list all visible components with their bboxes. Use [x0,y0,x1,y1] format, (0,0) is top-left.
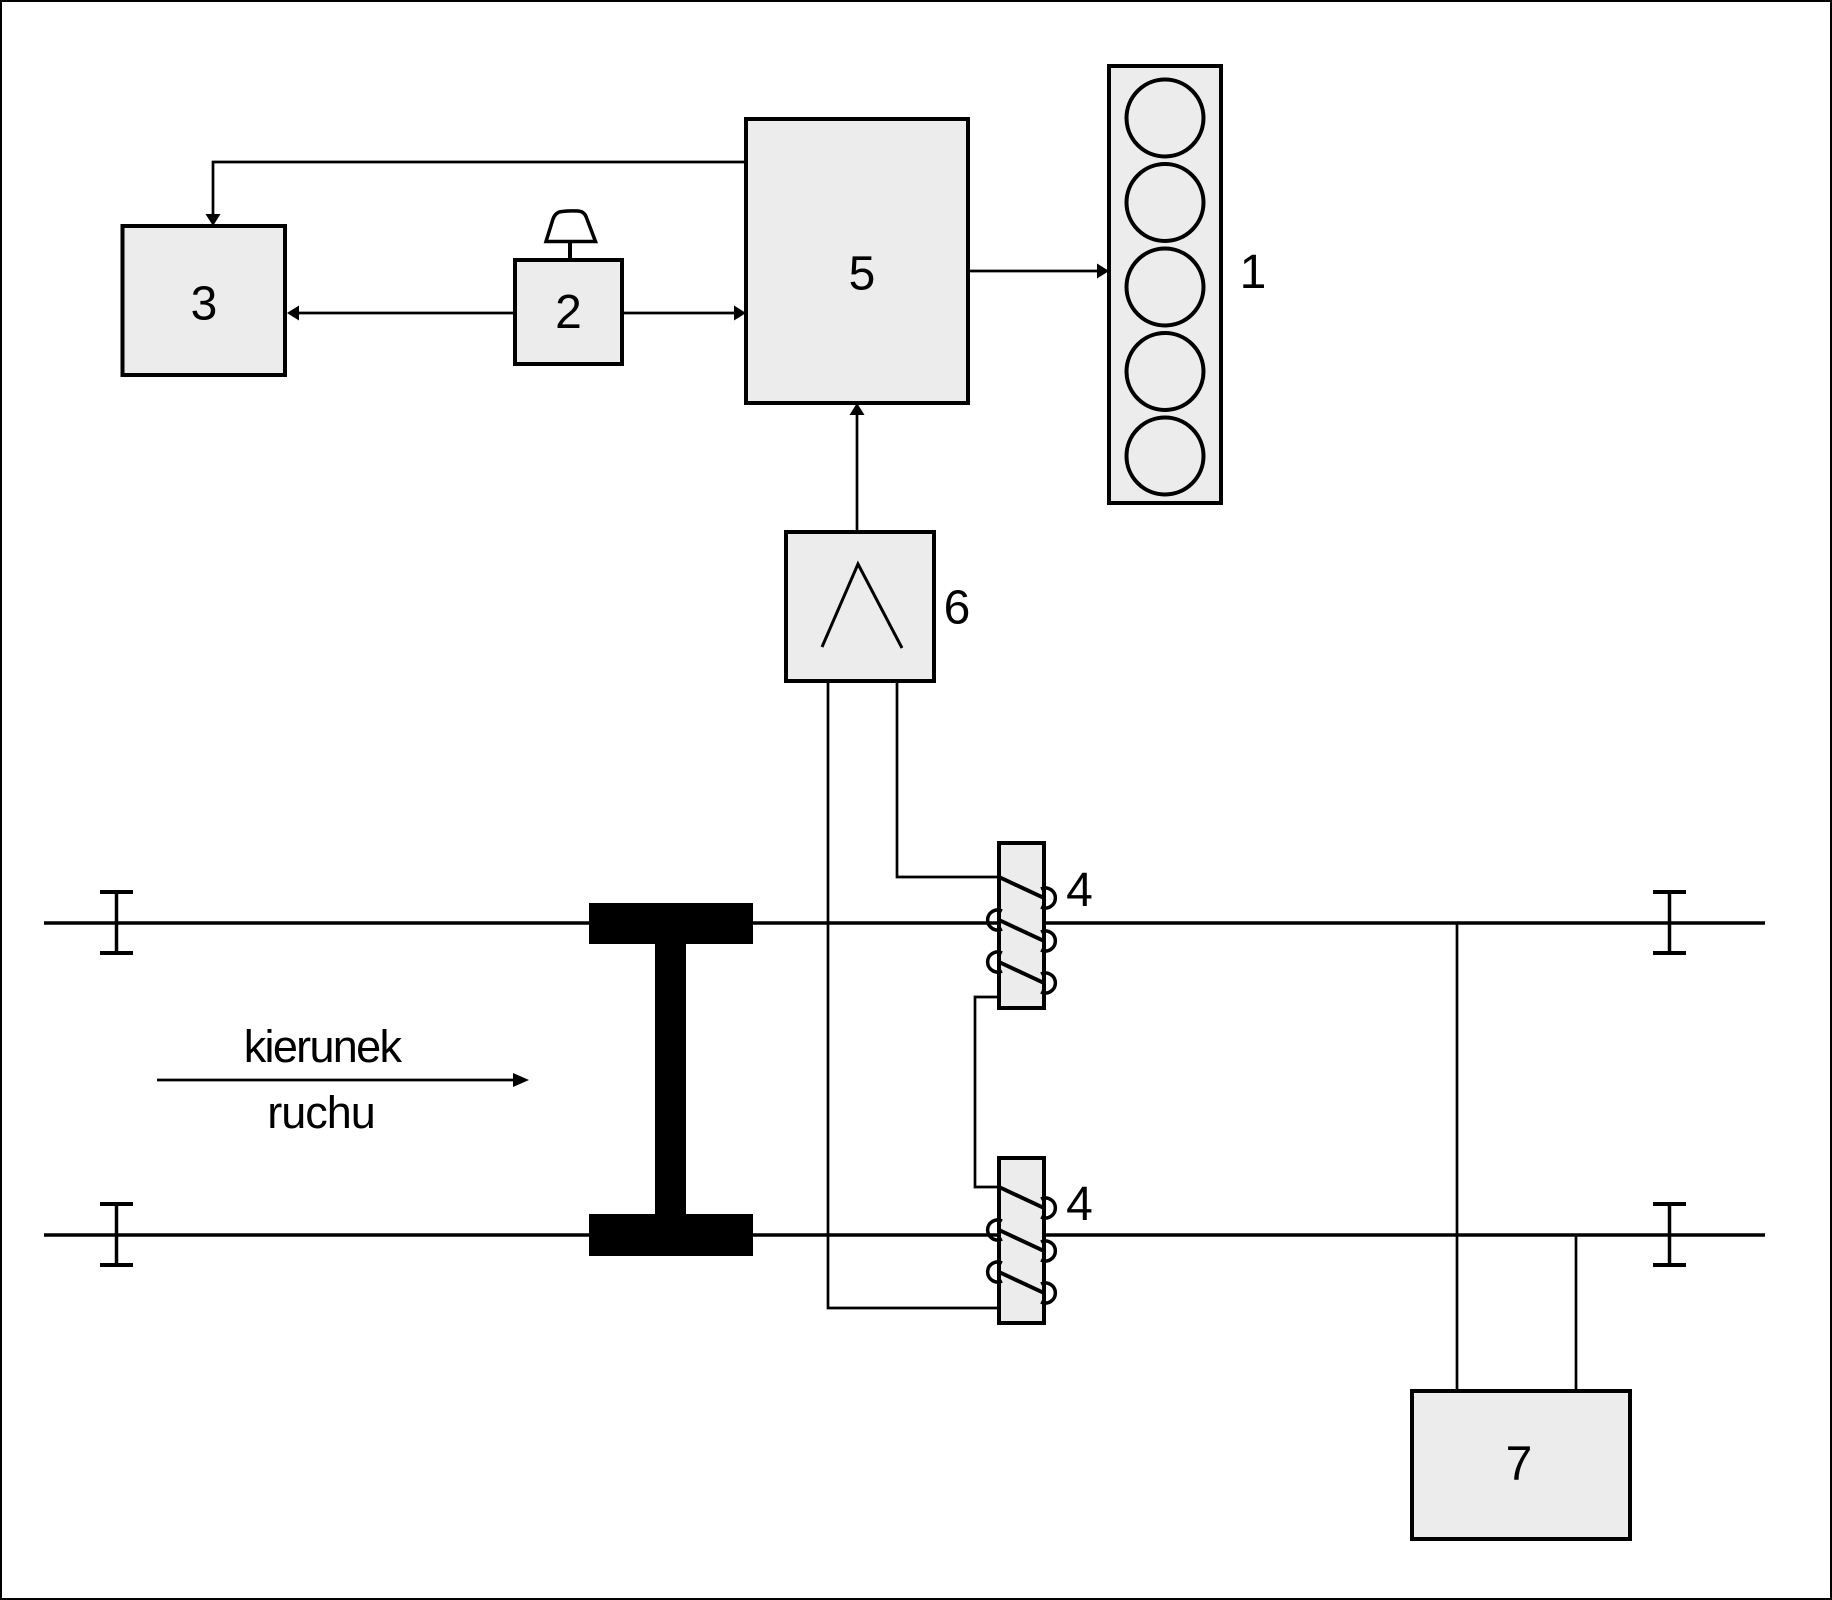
block 6 (amplifier) [786,532,934,681]
svg-text:6: 6 [944,582,971,635]
svg-text:4: 4 [1066,1178,1093,1231]
svg-text:ruchu: ruchu [267,1087,375,1138]
wire: feedback from block 5 to block 3 [206,162,747,226]
wire: top rail to block 7 [1456,923,1459,1391]
insulated joint, bottom rail right [1653,1203,1686,1266]
block 5 [746,119,968,403]
wire: block 6 to block 5 [850,403,865,532]
svg-text:3: 3 [191,278,218,331]
bottom rail [44,1233,1765,1237]
wire: block 2 to block 3 [287,306,515,321]
svg-text:kierunek: kierunek [244,1021,403,1072]
top rail [44,921,1765,925]
block 2 [515,260,622,364]
direction-of-travel arrow [157,1073,529,1087]
insulated joint, bottom rail left [100,1203,133,1266]
wire: bottom rail to block 7 [1575,1235,1578,1391]
svg-text:5: 5 [849,248,876,301]
svg-text:7: 7 [1506,1438,1533,1491]
wire: block 6 right terminal to upper coil 4 [897,681,999,877]
svg-text:2: 2 [555,286,582,339]
wheel axle (I-beam) on rails [589,903,753,1256]
insulated joint, top rail left [100,891,133,954]
svg-text:4: 4 [1066,864,1093,917]
svg-text:1: 1 [1240,246,1267,299]
wire: block 2 to block 5 [622,306,746,321]
insulated joint, top rail right [1653,891,1686,954]
wire: block 6 left terminal to lower coil 4 [828,681,999,1308]
bell symbol on block 2 [546,211,596,260]
block 3 [123,226,286,375]
wire: upper coil 4 to lower coil 4 [975,997,999,1187]
signal unit 1 [1109,66,1221,503]
wire: block 5 to signal 1 [968,264,1109,279]
lower coil 4 [988,1158,1056,1323]
upper coil 4 [988,843,1056,1008]
block 7 [1412,1391,1630,1539]
